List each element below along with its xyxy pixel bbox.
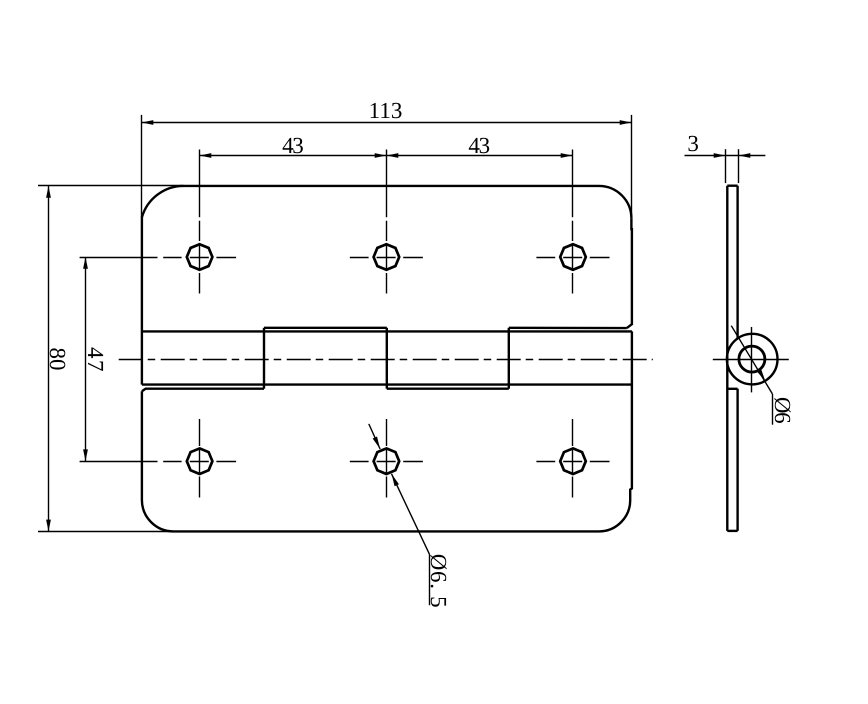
svg-text:3: 3	[687, 131, 698, 156]
svg-text:47: 47	[83, 347, 108, 373]
svg-text:Ø6. 5: Ø6. 5	[426, 554, 451, 609]
svg-text:Ø6: Ø6	[770, 397, 795, 423]
svg-text:80: 80	[45, 347, 70, 370]
svg-text:113: 113	[369, 98, 403, 123]
svg-text:43: 43	[468, 133, 489, 158]
svg-text:43: 43	[282, 133, 303, 158]
